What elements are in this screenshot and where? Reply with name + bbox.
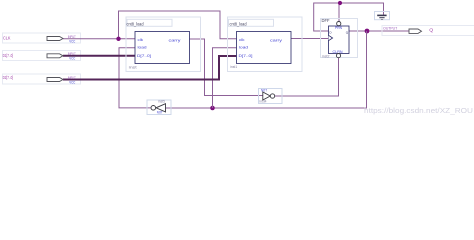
svg-text:INPUT: INPUT (68, 52, 76, 56)
svg-text:inst1: inst1 (230, 65, 237, 69)
svg-text:CLK: CLK (3, 35, 11, 40)
svg-text:https://blog.csdn.net/XZ_ROU: https://blog.csdn.net/XZ_ROU (364, 106, 473, 115)
svg-text:NOT: NOT (157, 111, 164, 115)
svg-text:carry: carry (169, 38, 181, 42)
svg-text:DFF: DFF (322, 18, 330, 23)
svg-text:inst4: inst4 (260, 100, 267, 104)
svg-text:D[7..0]: D[7..0] (239, 54, 253, 58)
svg-text:inst5: inst5 (158, 100, 165, 104)
svg-text:PRN: PRN (335, 26, 342, 30)
svg-text:INPUT: INPUT (68, 35, 76, 39)
svg-text:VCC: VCC (69, 39, 76, 43)
svg-text:OUTPUT: OUTPUT (383, 27, 397, 31)
svg-text:CLRN: CLRN (333, 50, 343, 54)
svg-text:INPUT: INPUT (68, 76, 76, 80)
svg-text:carry: carry (270, 38, 282, 42)
svg-text:Q: Q (429, 28, 434, 33)
svg-text:VCC: VCC (69, 80, 76, 84)
svg-text:NOT: NOT (261, 88, 268, 92)
svg-text:VCC: VCC (69, 57, 76, 61)
svg-text:D1[7..0]: D1[7..0] (3, 53, 14, 58)
svg-text:clk: clk (138, 38, 144, 42)
svg-text:inst: inst (129, 65, 137, 69)
svg-text:clk: clk (239, 38, 245, 42)
svg-text:inst2: inst2 (322, 54, 330, 58)
svg-text:load: load (138, 45, 147, 49)
svg-text:D[7..0]: D[7..0] (137, 54, 151, 58)
svg-text:cnt8_load: cnt8_load (230, 21, 248, 26)
svg-text:cnt8_load: cnt8_load (127, 21, 145, 26)
svg-text:D2[7..0]: D2[7..0] (3, 75, 14, 80)
svg-text:load: load (239, 45, 248, 49)
